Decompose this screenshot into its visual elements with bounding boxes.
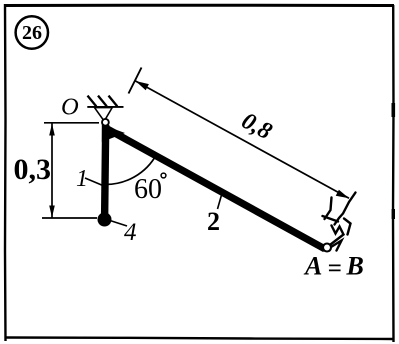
support triangle [95, 108, 113, 122]
svg-text:0,3: 0,3 [14, 153, 52, 186]
rod 2 (inclined) [107, 129, 326, 250]
svg-text:O: O [61, 94, 79, 121]
dimension 0,3 top extension line [44, 122, 99, 124]
broken wall zigzag at B [323, 193, 356, 251]
label 2 leader [218, 195, 222, 209]
dimension 0,8 left arrow [136, 81, 149, 90]
svg-text:26: 26 [22, 22, 42, 44]
dimension 0,3 arrow down [49, 206, 55, 218]
pin circle at B [323, 244, 331, 252]
svg-text:A: A [303, 252, 322, 281]
rod 1 (vertical) [105, 125, 106, 218]
svg-text:60: 60 [134, 174, 162, 205]
dimension 0,3 line [51, 123, 53, 218]
border frame bottom [5, 338, 393, 340]
dimension 0,8 line [136, 81, 350, 198]
joint dot 4 [98, 213, 112, 227]
angle arc 60 [104, 154, 157, 184]
dimension 0,8 right arrow [336, 190, 349, 199]
svg-text:2: 2 [207, 207, 220, 236]
dimension 0,3 arrow up [49, 124, 55, 136]
border frame top [5, 4, 394, 7]
problem number circle 26 [16, 16, 48, 48]
joint wedge at O [102, 125, 125, 143]
border frame left [4, 4, 7, 341]
label 4 leader [110, 221, 127, 227]
svg-text:=: = [328, 255, 342, 282]
pin circle at O [102, 119, 109, 126]
degree mark [161, 173, 166, 178]
dimension 0,3 bottom extension line [42, 217, 97, 219]
svg-text:1: 1 [76, 166, 88, 192]
dimension 0,8 left tick [129, 68, 142, 94]
svg-text:4: 4 [124, 219, 137, 246]
support base line [87, 106, 123, 108]
label 1 leader [85, 178, 104, 186]
support hatching [88, 96, 118, 107]
svg-text:B: B [346, 252, 364, 281]
border frame right [392, 5, 395, 342]
